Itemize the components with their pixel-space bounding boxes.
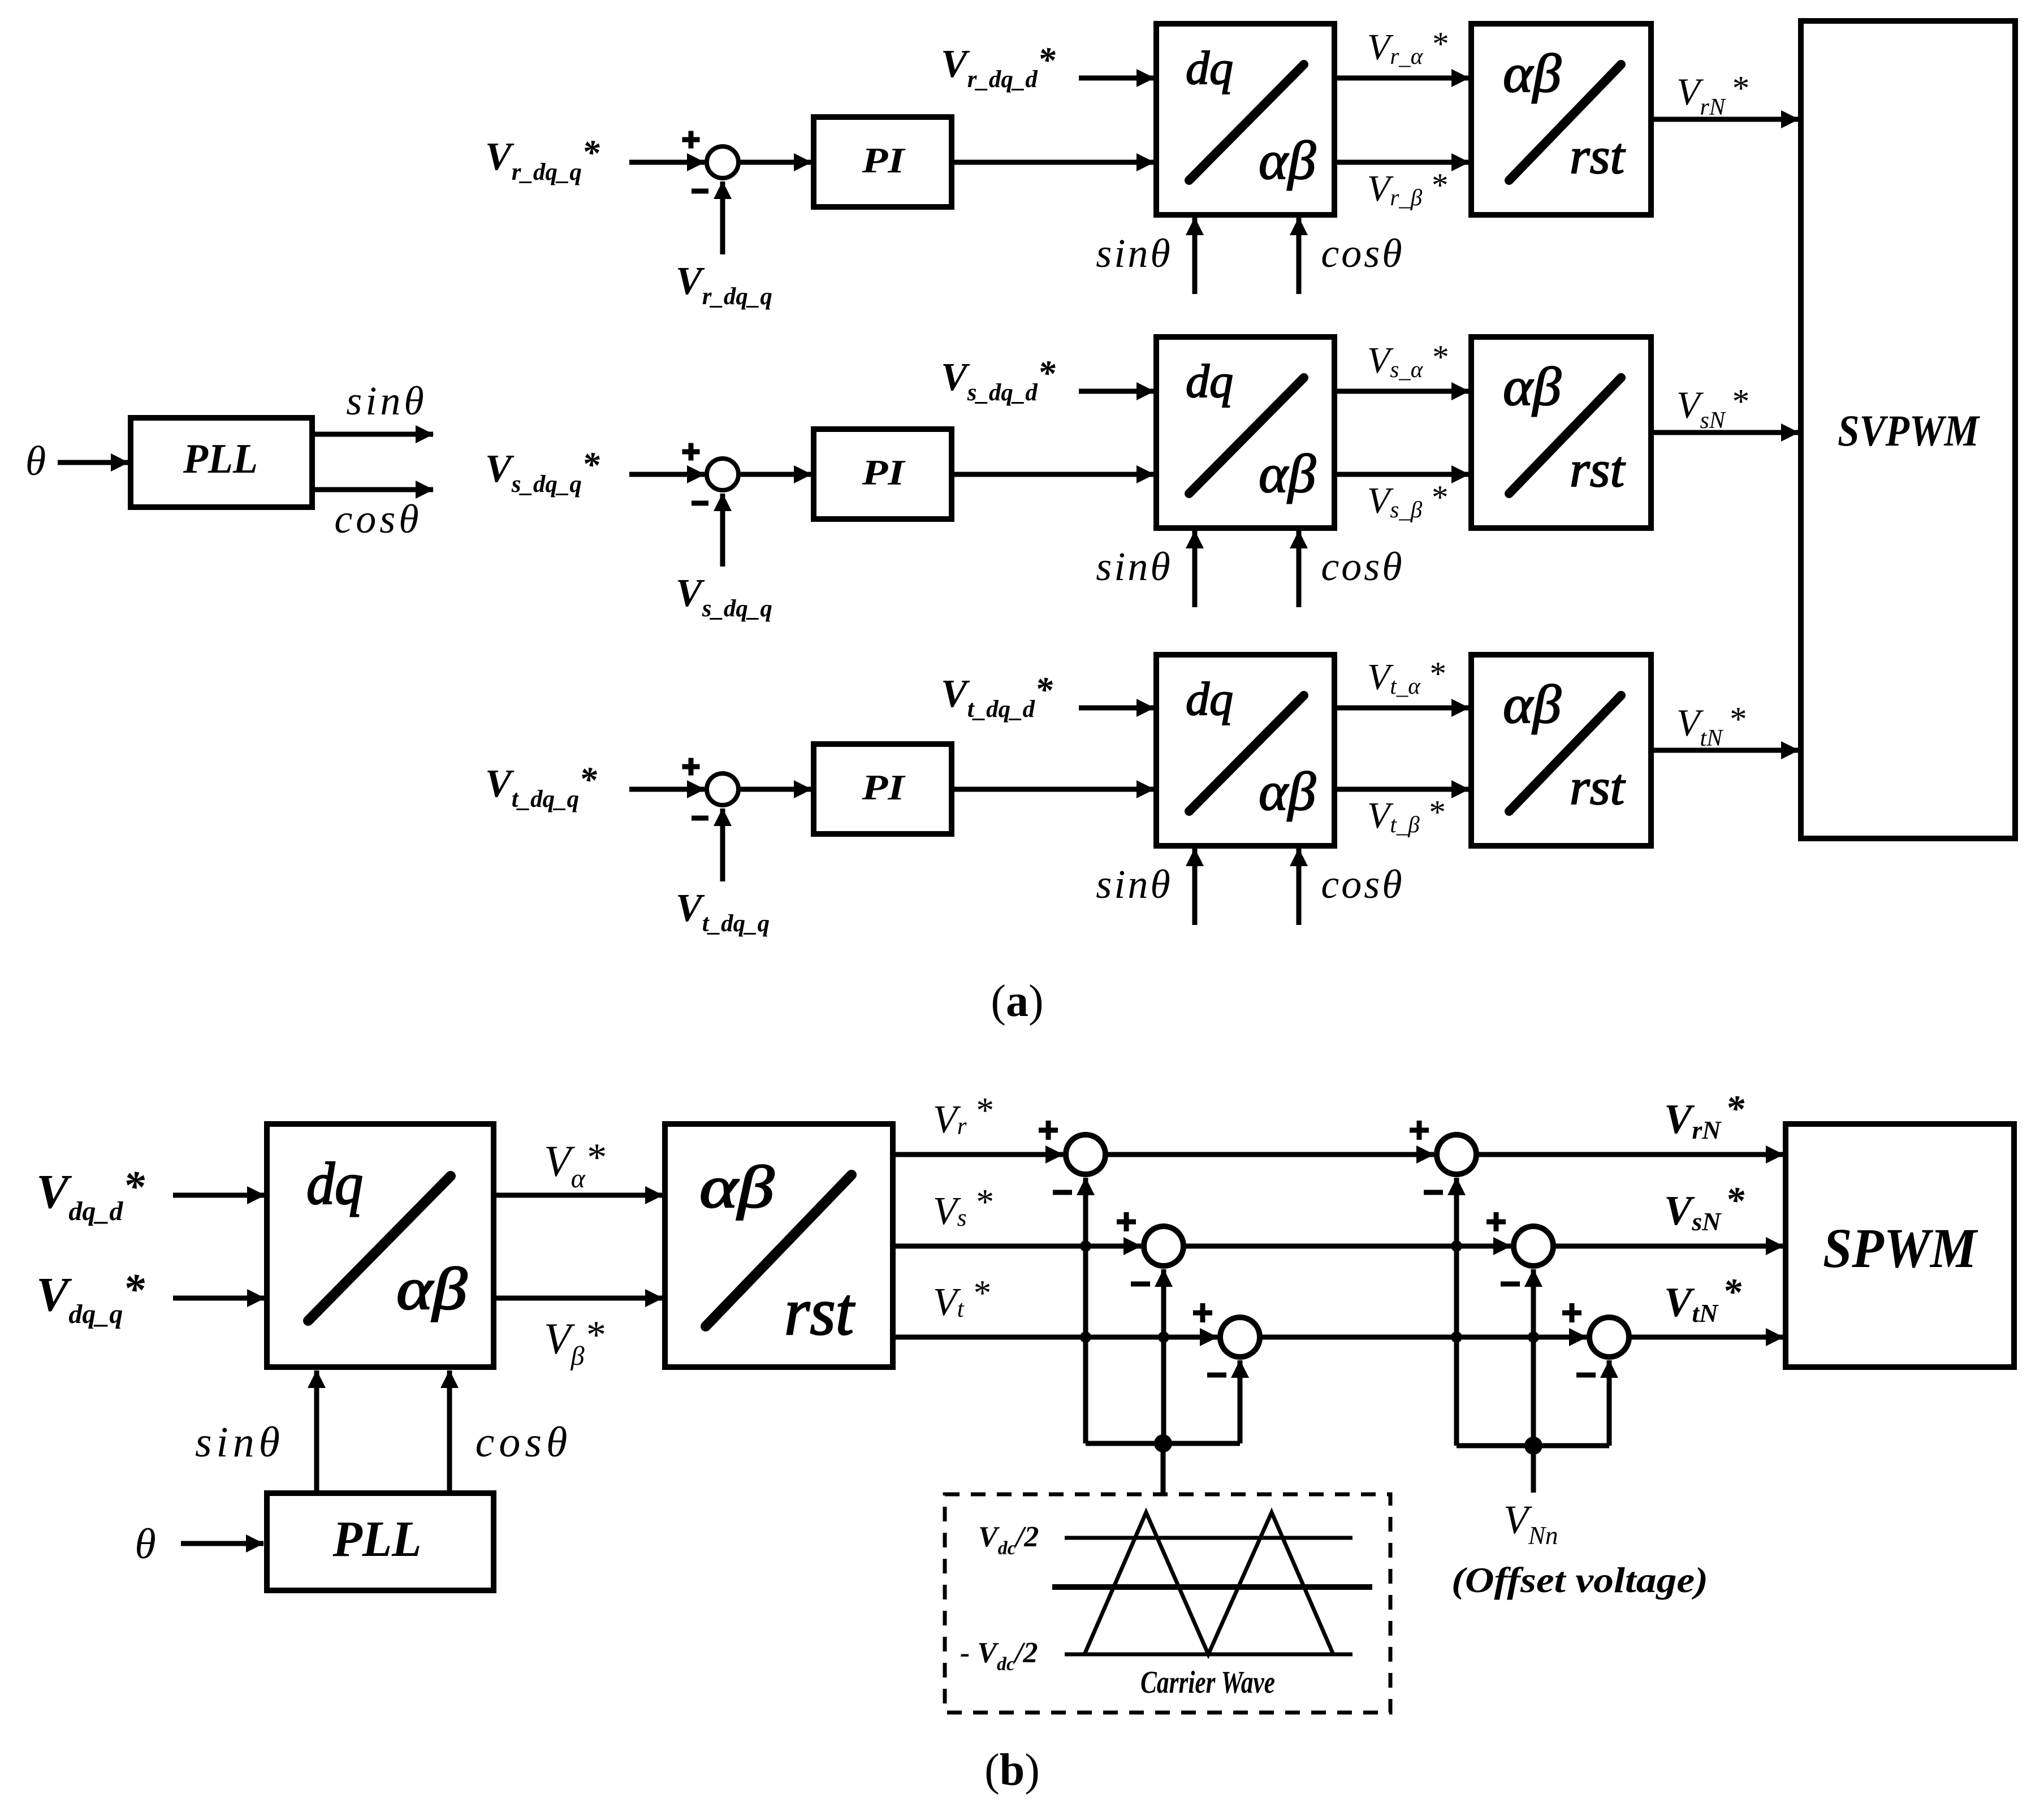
svg-text:θ: θ bbox=[25, 438, 46, 485]
plus sign at summing junction (a,r) bbox=[682, 131, 700, 149]
wire summing junction 2 to 5 (b) bbox=[1183, 1244, 1511, 1249]
wire V_r_dq_d* into dq block (a,r) bbox=[1079, 76, 1154, 81]
wire cos-theta into dq block (a,r) bbox=[1297, 218, 1302, 294]
svg-text:SPWM: SPWM bbox=[1823, 1217, 1978, 1279]
minus sign at summing junction 1 (b) bbox=[1053, 1190, 1072, 1195]
junction dot offset bus (b) bbox=[1524, 1437, 1542, 1455]
svg-text:sinθ: sinθ bbox=[195, 1419, 284, 1466]
wire summing junction to PI (a,t) bbox=[741, 787, 811, 792]
minus sign at summing junction (a,s) bbox=[692, 501, 708, 506]
diagonal in ab/rst block (a,t) bbox=[1509, 695, 1621, 811]
summing junction 1 (b) bbox=[1066, 1135, 1105, 1174]
summing junction 5 (b) bbox=[1514, 1226, 1553, 1266]
svg-text:αβ: αβ bbox=[396, 1256, 467, 1322]
svg-text:αβ: αβ bbox=[1259, 130, 1316, 191]
wire PI to dq block (a,r) bbox=[952, 160, 1154, 165]
wire V_s_dq_d* into dq block (a,s) bbox=[1079, 389, 1154, 394]
svg-text:Carrier Wave: Carrier Wave bbox=[1140, 1665, 1275, 1700]
block alpha-beta/rst (a,s) bbox=[1471, 337, 1651, 528]
wire V_t* to summing junction 3 (b) bbox=[893, 1335, 1217, 1340]
wire V_t_dq_d* into dq block (a,t) bbox=[1079, 706, 1154, 711]
wire theta to PLL (a) bbox=[58, 460, 128, 465]
wire V_s_&#945;* dq to ab/rst (a,s) bbox=[1334, 389, 1469, 394]
block dq/alpha-beta (a,t) bbox=[1156, 655, 1334, 846]
block SPWM (b) bbox=[1786, 1124, 2014, 1367]
wire V_r_&#945;* dq to ab/rst (a,r) bbox=[1334, 76, 1469, 81]
svg-text:PI: PI bbox=[861, 140, 906, 180]
wire PLL cos-theta output (a) bbox=[312, 487, 433, 492]
diagonal in ab/rst block (a,s) bbox=[1509, 378, 1621, 494]
wire cos-theta PLL to dq (b) bbox=[447, 1370, 452, 1493]
wire input to summing junction (a,r) bbox=[629, 160, 705, 165]
diagonal in ab/rst block (a,r) bbox=[1509, 64, 1621, 180]
wire V_Nn to bus (b) bbox=[1531, 1446, 1536, 1493]
block PI (a,s) bbox=[814, 429, 952, 519]
svg-text:rst: rst bbox=[1570, 442, 1626, 498]
wire summing junction to PI (a,s) bbox=[741, 472, 811, 477]
wire cos-theta into dq block (a,s) bbox=[1297, 531, 1302, 607]
wire V_r* to summing junction 1 (b) bbox=[893, 1152, 1063, 1157]
junction dot riser4 x VsN row (b) bbox=[1451, 1240, 1462, 1252]
wire V_t_&#945;* dq to ab/rst (a,t) bbox=[1334, 706, 1469, 711]
summing junction 4 (b) bbox=[1437, 1135, 1476, 1174]
plus sign at summing junction 4 (b) bbox=[1410, 1121, 1429, 1140]
wire summing junction 3 to 6 (b) bbox=[1260, 1335, 1587, 1340]
plus sign at summing junction (a,t) bbox=[682, 758, 700, 776]
wire carrier wave to bus (b) bbox=[1161, 1443, 1166, 1494]
block alpha-beta/rst (a,t) bbox=[1471, 655, 1651, 846]
svg-text:αβ: αβ bbox=[1503, 43, 1561, 103]
svg-text:(b): (b) bbox=[984, 1745, 1040, 1795]
wire V_r_&#946;* dq to ab/rst (a,r) bbox=[1334, 160, 1469, 165]
wire sin-theta into dq block (a,t) bbox=[1192, 849, 1198, 925]
svg-text:cosθ: cosθ bbox=[1321, 544, 1404, 589]
carrier mid level line (b) bbox=[1052, 1584, 1372, 1590]
feedback riser to summing junction 3 (b) bbox=[1238, 1360, 1243, 1443]
junction dot riser4 x VtN row (b) bbox=[1451, 1331, 1462, 1343]
block SVPWM (a) bbox=[1801, 21, 2015, 838]
wire V_dq_d* into dq block (b) bbox=[173, 1193, 265, 1198]
carrier lower level line (b) bbox=[1065, 1653, 1352, 1657]
feedback riser to summing junction 5 (b) bbox=[1531, 1269, 1536, 1446]
svg-text:rst: rst bbox=[784, 1274, 855, 1349]
feedback riser to summing junction 2 (b) bbox=[1161, 1269, 1166, 1443]
summing junction (a,s) bbox=[707, 459, 738, 490]
block alpha-beta/rst (b) bbox=[665, 1124, 893, 1367]
carrier triangle wave (b) bbox=[1084, 1512, 1333, 1654]
wire V_s_&#946;* dq to ab/rst (a,s) bbox=[1334, 472, 1469, 477]
svg-text:(a): (a) bbox=[991, 976, 1043, 1026]
junction dot carrier bus (b) bbox=[1154, 1434, 1172, 1452]
svg-text:dq: dq bbox=[1186, 355, 1233, 408]
wire sin-theta into dq block (a,s) bbox=[1192, 531, 1198, 607]
svg-text:cosθ: cosθ bbox=[1321, 862, 1404, 907]
block alpha-beta/rst (a,r) bbox=[1471, 24, 1651, 215]
svg-text:cosθ: cosθ bbox=[1321, 231, 1404, 276]
block PLL (b) bbox=[267, 1493, 494, 1590]
block dq/alpha-beta (b) bbox=[267, 1124, 494, 1367]
minus sign at summing junction 6 (b) bbox=[1576, 1373, 1596, 1378]
block dq/alpha-beta (a,r) bbox=[1156, 24, 1334, 215]
svg-text:rst: rst bbox=[1570, 128, 1626, 184]
block dq/alpha-beta (a,s) bbox=[1156, 337, 1334, 528]
feedback arrow into summing junction (a,t) bbox=[720, 808, 725, 881]
minus sign at summing junction 5 (b) bbox=[1501, 1282, 1520, 1287]
wire sin-theta PLL to dq (b) bbox=[314, 1370, 319, 1493]
summing junction 6 (b) bbox=[1589, 1317, 1629, 1357]
svg-text:PLL: PLL bbox=[332, 1511, 422, 1567]
feedback riser to summing junction 1 (b) bbox=[1083, 1178, 1088, 1443]
carrier wave box (b) bbox=[945, 1494, 1390, 1713]
wire V_alpha* dq to ab/rst (b) bbox=[494, 1193, 663, 1198]
wire V_sN* to SPWM (b) bbox=[1553, 1244, 1783, 1249]
wire V_rN* to SPWM (b) bbox=[1476, 1152, 1783, 1157]
svg-text:cosθ: cosθ bbox=[476, 1419, 572, 1466]
minus sign at summing junction 2 (b) bbox=[1131, 1282, 1150, 1287]
junction dot riser2 x Vt* row (b) bbox=[1158, 1331, 1169, 1343]
wire PLL sin-theta output (a) bbox=[312, 432, 433, 437]
svg-text:dq: dq bbox=[1186, 42, 1233, 94]
diagonal in dq block (b) bbox=[308, 1176, 451, 1321]
svg-text:sinθ: sinθ bbox=[1096, 544, 1172, 589]
svg-text:αβ: αβ bbox=[1259, 443, 1316, 504]
summing junction 3 (b) bbox=[1220, 1317, 1260, 1357]
minus sign at summing junction (a,r) bbox=[692, 189, 708, 194]
block PI (a,r) bbox=[814, 117, 952, 207]
summing junction (a,t) bbox=[707, 773, 738, 805]
wire theta to PLL (b) bbox=[181, 1541, 263, 1546]
diagonal in dq block (a,s) bbox=[1189, 378, 1304, 494]
svg-text:dq: dq bbox=[306, 1151, 363, 1217]
wire V_rN* to SVPWM (a,r) bbox=[1651, 117, 1799, 122]
wire V_beta* dq to ab/rst (b) bbox=[494, 1296, 663, 1301]
svg-text:αβ: αβ bbox=[1503, 674, 1561, 734]
carrier feedback bus (b) bbox=[1086, 1441, 1240, 1446]
feedback riser to summing junction 4 (b) bbox=[1454, 1178, 1459, 1446]
wire V_sN* to SVPWM (a,s) bbox=[1651, 430, 1799, 435]
wire V_dq_q* into dq block (b) bbox=[173, 1296, 265, 1301]
wire V_tN* to SVPWM (a,t) bbox=[1651, 748, 1799, 753]
diagonal in dq block (a,r) bbox=[1189, 64, 1304, 180]
wire input to summing junction (a,t) bbox=[629, 787, 705, 792]
plus sign at summing junction 6 (b) bbox=[1562, 1303, 1581, 1322]
minus sign at summing junction 3 (b) bbox=[1207, 1373, 1226, 1378]
svg-text:rst: rst bbox=[1570, 759, 1626, 815]
wire summing junction to PI (a,r) bbox=[741, 160, 811, 165]
wire input to summing junction (a,s) bbox=[629, 472, 705, 477]
svg-text:SVPWM: SVPWM bbox=[1838, 406, 1980, 455]
feedback arrow into summing junction (a,r) bbox=[720, 181, 725, 254]
wire cos-theta into dq block (a,t) bbox=[1297, 849, 1302, 925]
svg-text:sinθ: sinθ bbox=[346, 378, 427, 423]
diagonal in ab/rst block (b) bbox=[706, 1175, 852, 1326]
wire PI to dq block (a,t) bbox=[952, 787, 1154, 792]
svg-text:αβ: αβ bbox=[1503, 356, 1561, 417]
plus sign at summing junction 2 (b) bbox=[1117, 1212, 1136, 1231]
diagonal in dq block (a,t) bbox=[1189, 695, 1304, 811]
plus sign at summing junction 5 (b) bbox=[1486, 1212, 1506, 1231]
block PI (a,t) bbox=[814, 744, 952, 834]
block PLL (a) bbox=[131, 418, 312, 507]
svg-text:dq: dq bbox=[1186, 673, 1233, 725]
svg-text:PI: PI bbox=[861, 452, 906, 492]
minus sign at summing junction (a,t) bbox=[692, 816, 708, 821]
wire PI to dq block (a,s) bbox=[952, 472, 1154, 477]
svg-text:cosθ: cosθ bbox=[334, 496, 422, 542]
wire sin-theta into dq block (a,r) bbox=[1192, 218, 1198, 294]
svg-text:(Offset voltage): (Offset voltage) bbox=[1451, 1560, 1708, 1600]
svg-text:θ: θ bbox=[135, 1520, 155, 1568]
carrier upper level line (b) bbox=[1065, 1536, 1352, 1540]
wire summing junction 1 to 4 (b) bbox=[1105, 1152, 1434, 1157]
plus sign at summing junction 3 (b) bbox=[1193, 1303, 1212, 1322]
feedback arrow into summing junction (a,s) bbox=[720, 494, 725, 567]
junction dot riser1 x Vs* row (b) bbox=[1080, 1240, 1091, 1252]
svg-text:αβ: αβ bbox=[1259, 761, 1316, 821]
summing junction (a,r) bbox=[707, 146, 738, 178]
plus sign at summing junction 1 (b) bbox=[1039, 1121, 1058, 1140]
feedback riser to summing junction 6 (b) bbox=[1607, 1360, 1612, 1446]
svg-text:PLL: PLL bbox=[183, 436, 258, 482]
wire V_tN* to SPWM (b) bbox=[1629, 1335, 1783, 1340]
offset voltage bus (b) bbox=[1457, 1443, 1609, 1449]
svg-text:sinθ: sinθ bbox=[1096, 231, 1172, 276]
junction dot riser5 x VtN row (b) bbox=[1528, 1331, 1539, 1343]
svg-text:αβ: αβ bbox=[699, 1154, 774, 1220]
wire V_t_&#946;* dq to ab/rst (a,t) bbox=[1334, 787, 1469, 792]
junction dot riser1 x Vt* row (b) bbox=[1080, 1331, 1091, 1343]
summing junction 2 (b) bbox=[1144, 1226, 1183, 1266]
svg-text:PI: PI bbox=[861, 767, 906, 807]
minus sign at summing junction 4 (b) bbox=[1424, 1190, 1443, 1195]
svg-text:sinθ: sinθ bbox=[1096, 862, 1172, 907]
wire V_s* to summing junction 2 (b) bbox=[893, 1244, 1141, 1249]
plus sign at summing junction (a,s) bbox=[682, 443, 700, 461]
